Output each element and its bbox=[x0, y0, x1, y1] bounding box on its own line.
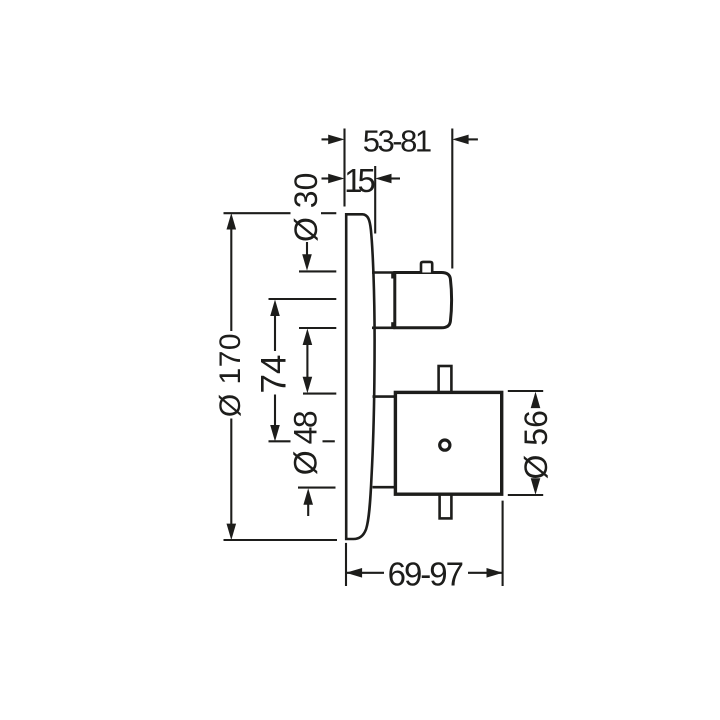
dim 74: upper tail bbox=[274, 314, 276, 351]
dim 69-97: left arrowhead (left) bbox=[346, 568, 362, 578]
dim O170: upper arrowhead (up) bbox=[227, 213, 237, 230]
lower square handle bbox=[395, 392, 501, 494]
svg-text:15: 15 bbox=[344, 162, 374, 199]
dim O170: lower tail bbox=[230, 419, 232, 526]
dim 53-81: left arrow tail bbox=[322, 138, 331, 140]
svg-text:53-81: 53-81 bbox=[363, 124, 431, 159]
svg-text:Ø 170: Ø 170 bbox=[214, 333, 247, 417]
handle center screw circle bbox=[440, 440, 450, 450]
dim O48: center extension line (shared with 74 bottom, gap for text) bbox=[269, 440, 291, 442]
dim 74: lower arrowhead (down) bbox=[270, 425, 280, 442]
dim O30/O48 shared arrow line bbox=[306, 343, 308, 379]
dim O48: top extension line bbox=[303, 393, 336, 395]
dim 74: upper arrowhead (up) bbox=[270, 300, 280, 317]
svg-text:Ø 48: Ø 48 bbox=[288, 411, 324, 475]
dim O30: top extension line (shared with O170 top, gap for text) bbox=[224, 212, 291, 214]
handle top tab bbox=[439, 366, 452, 392]
lower handle stem top line bbox=[373, 395, 397, 398]
dim 69-97: right extension line bbox=[502, 501, 504, 586]
svg-text:Ø 30: Ø 30 bbox=[288, 173, 324, 242]
dim O56: bottom extension line bbox=[508, 494, 543, 496]
dim O30: knob-bottom extension line bbox=[299, 327, 336, 329]
dim 69-97: right arrowhead (right) bbox=[487, 568, 503, 578]
dim 53-81: right arrow tail bbox=[468, 138, 478, 140]
upper knob stem top line bbox=[372, 271, 395, 274]
upper knob stem bottom line bbox=[372, 326, 395, 329]
dim O48: bottom extension line bbox=[298, 487, 336, 489]
escutcheon plate (side view) bbox=[346, 214, 374, 539]
dim 53-81: left arrowhead bbox=[328, 135, 344, 145]
dim O48: lower arrow tail bbox=[307, 503, 309, 516]
dim O56: upper arrowhead (up) bbox=[531, 392, 541, 409]
dim 53-81: left extension line bbox=[343, 129, 345, 207]
dim 15: left arrow tail bbox=[322, 177, 331, 179]
knob joint notch lower bbox=[391, 322, 396, 327]
dim O30: upper arrow tail bbox=[306, 242, 308, 256]
dim 69-97: left extension line bbox=[345, 543, 347, 586]
dim 53-81: right arrowhead bbox=[452, 135, 468, 145]
dim O170: upper tail bbox=[230, 228, 232, 331]
knob joint notch upper bbox=[391, 273, 396, 278]
svg-text:74: 74 bbox=[255, 355, 294, 394]
dim 74: top extension line (knob center) bbox=[269, 298, 337, 300]
dim O56: top extension line bbox=[508, 390, 543, 392]
dim O170: bottom extension line bbox=[224, 539, 338, 541]
lower handle stem bottom line bbox=[373, 486, 397, 489]
handle bottom tab bbox=[440, 495, 452, 519]
dim 15: right arrowhead bbox=[375, 174, 391, 184]
dim O56: lower arrowhead (down) bbox=[531, 478, 541, 495]
dim 15: right arrow tail bbox=[391, 177, 401, 179]
dim 53-81: right extension line bbox=[451, 129, 453, 269]
svg-text:69-97: 69-97 bbox=[388, 555, 463, 592]
dim O30: upper arrowhead (down) bbox=[302, 254, 312, 270]
dim O30: knob-top extension line bbox=[299, 270, 336, 272]
dim 74: lower tail bbox=[274, 395, 276, 428]
dim O48: upper arrowhead (down) bbox=[303, 377, 313, 394]
upper thermostat knob body bbox=[395, 273, 452, 328]
dim O170: lower arrowhead (down) bbox=[227, 524, 237, 541]
knob top tab bbox=[421, 262, 432, 273]
svg-text:Ø 56: Ø 56 bbox=[518, 410, 554, 479]
dim O30: lower arrowhead (up) bbox=[303, 329, 313, 346]
dim 15: left arrowhead bbox=[328, 174, 344, 184]
dim O48: lower arrowhead (up) bbox=[303, 488, 313, 505]
dim 69-97: right dim line bbox=[468, 572, 503, 574]
dim 15: extension line bbox=[374, 166, 376, 234]
dim 69-97: left dim line bbox=[346, 572, 384, 574]
